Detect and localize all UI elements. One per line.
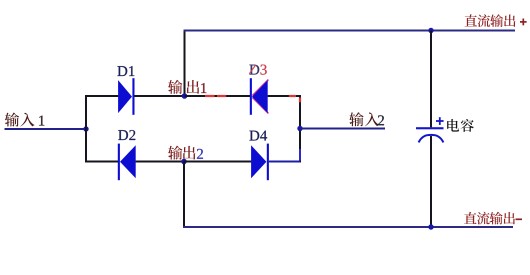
capacitor C1 电容 bbox=[416, 31, 444, 228]
diode D3 bbox=[250, 78, 269, 115]
label 直流输出- bbox=[464, 212, 522, 225]
node junction cap bottom bbox=[428, 224, 433, 229]
wire bottom DC- bbox=[183, 226, 513, 228]
node 输出1 bbox=[182, 93, 188, 99]
label 输入1 bbox=[5, 113, 45, 127]
node junction input1 bbox=[83, 126, 88, 131]
red highlight dashes on out1-D3 wire bbox=[205, 95, 226, 97]
wire input2 bbox=[300, 128, 385, 130]
red highlight dash before corner bbox=[289, 95, 296, 97]
label D3 bbox=[249, 65, 266, 75]
wire D3 to right rail bbox=[268, 95, 301, 97]
wire riser out1 to top bbox=[184, 31, 186, 97]
label 输出2 bbox=[168, 146, 203, 160]
node junction input2 bbox=[297, 126, 302, 131]
wire D2 to node out2 bbox=[136, 161, 184, 163]
node 输出2 bbox=[181, 159, 187, 165]
label D1 bbox=[117, 66, 127, 76]
wire left rail bbox=[85, 95, 87, 163]
wire out1 to D3 bbox=[185, 95, 251, 97]
diode D2 bbox=[118, 144, 136, 181]
wire D1 to node out1 bbox=[135, 95, 185, 97]
wire rail to D2 bbox=[86, 161, 118, 163]
blue tint on rail lower bbox=[299, 149, 301, 161]
label D4 bbox=[249, 131, 259, 141]
wire input1 bbox=[5, 128, 87, 130]
node junction cap top bbox=[428, 28, 433, 33]
wire D4 to rail bbox=[269, 161, 300, 163]
label 输入2 bbox=[349, 112, 384, 126]
wire out2 to D4 bbox=[184, 161, 251, 163]
diode D1 bbox=[118, 78, 134, 115]
wire top DC+ bbox=[184, 30, 516, 32]
wire drop out2 to bottom bbox=[183, 162, 185, 228]
diode D4 bbox=[251, 144, 269, 181]
wire right rail bbox=[299, 95, 301, 163]
label D2 bbox=[118, 130, 128, 140]
wire top-left bbox=[85, 95, 119, 97]
label 输出1 bbox=[168, 80, 206, 94]
label 直流输出+ bbox=[465, 14, 527, 27]
red highlight dash on rail bbox=[299, 98, 301, 103]
label 电容 bbox=[447, 119, 474, 132]
